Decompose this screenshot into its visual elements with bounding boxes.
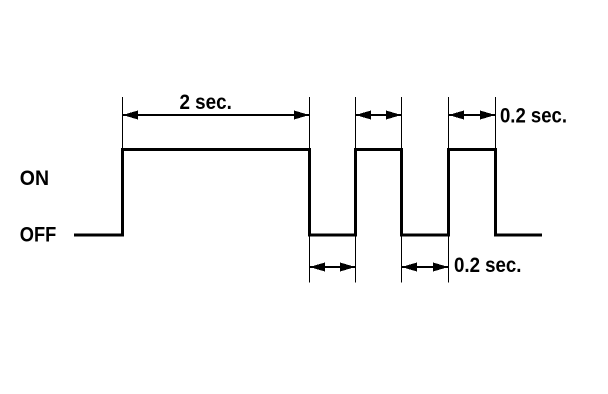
dimension shaft top middle (x=355..401) xyxy=(356,114,402,116)
dimension shaft bottom left (x=309..355) xyxy=(310,266,356,268)
arrowhead left of top right dimension xyxy=(449,111,465,120)
svg-text:0.2 sec.: 0.2 sec. xyxy=(500,103,567,127)
svg-text:OFF: OFF xyxy=(20,223,57,247)
svg-text:2 sec.: 2 sec. xyxy=(180,90,232,114)
dimension shaft 2 sec (top, x=122..309) xyxy=(123,114,310,116)
extension line at second rising edge (x=355) xyxy=(355,97,357,283)
waveform pulse train xyxy=(74,150,542,236)
extension line at third falling edge (x=495) xyxy=(495,97,497,148)
dimension shaft top right (x=448..495) xyxy=(449,114,496,116)
extension line at first falling edge (x=309) xyxy=(309,97,311,283)
extension line at first rising edge (x=122) xyxy=(122,97,124,148)
extension line at third rising edge (x=448) xyxy=(448,97,450,283)
arrowhead right of bottom left dimension xyxy=(340,263,356,272)
svg-text:0.2 sec.: 0.2 sec. xyxy=(454,253,522,277)
arrowhead left of bottom right dimension xyxy=(402,263,418,272)
extension line at second falling edge (x=401) xyxy=(401,97,403,283)
arrowhead left of 2 sec dimension xyxy=(123,111,139,120)
arrowhead right of 2 sec dimension xyxy=(294,111,310,120)
dimension shaft bottom right (x=401..448) xyxy=(402,266,449,268)
arrowhead right of top right dimension xyxy=(480,111,496,120)
svg-text:ON: ON xyxy=(20,166,49,190)
arrowhead left of bottom left dimension xyxy=(310,263,326,272)
arrowhead right of top middle dimension xyxy=(386,111,402,120)
arrowhead right of bottom right dimension xyxy=(433,263,449,272)
arrowhead left of top middle dimension xyxy=(356,111,372,120)
